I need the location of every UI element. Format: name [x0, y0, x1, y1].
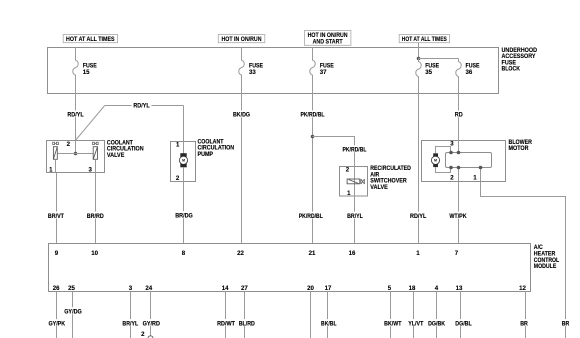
wire YL/VT from module pin 18	[407, 292, 424, 338]
blower motor name	[509, 139, 533, 152]
svg-text:RD: RD	[455, 112, 464, 119]
svg-text:RD/WT: RD/WT	[217, 320, 235, 327]
wire GY/RD from module pin 24 with connector	[142, 292, 161, 336]
svg-text:BR/YL: BR/YL	[347, 213, 363, 220]
wire PK/RD/BL from fuse 37 to module pin 21	[298, 94, 325, 244]
wire GY/PK from module pin 26	[47, 292, 66, 338]
wire GY/DG from module pin 25	[63, 292, 83, 338]
fuse 15	[73, 48, 97, 94]
fuse 37	[310, 48, 334, 94]
connector 2 on GY/RD wire	[141, 331, 153, 338]
wire BK/DG from fuse 33 to module pin 22	[232, 94, 251, 244]
svg-text:BR: BR	[562, 320, 570, 327]
svg-text:27: 27	[241, 285, 248, 292]
svg-text:DG/BL: DG/BL	[455, 320, 472, 327]
wire from blower motor pin 1 right side down	[481, 168, 571, 338]
svg-text:RD/YL: RD/YL	[133, 102, 150, 109]
svg-text:BK/WT: BK/WT	[384, 320, 402, 327]
blower motor M2	[431, 153, 439, 167]
svg-text:BR/VT: BR/VT	[48, 213, 64, 220]
svg-text:BR/YL: BR/YL	[122, 320, 138, 327]
svg-text:33: 33	[249, 69, 256, 76]
svg-text:17: 17	[325, 285, 332, 292]
module bottom pin numbers	[53, 285, 527, 292]
svg-text:GY/DG: GY/DG	[64, 308, 82, 315]
blower motor bottom link wire	[436, 167, 451, 172]
recirc valve symbol	[347, 179, 364, 184]
power label box: HOT AT ALL TIMES (fuse 15)	[63, 35, 117, 44]
module top pin numbers	[55, 250, 459, 257]
wire from HOT AT ALL TIMES box down to fuse 35/36 junction	[418, 43, 420, 59]
svg-text:25: 25	[68, 285, 75, 292]
coolant circulation pump name	[198, 139, 235, 158]
wire RD/WT from module pin 14	[216, 292, 236, 338]
wire down into pump pin 1	[183, 106, 185, 142]
svg-text:3: 3	[89, 166, 93, 173]
A/C heater control module box	[49, 244, 531, 292]
wire BK/WT from module pin 5	[383, 292, 402, 338]
svg-text:AND START: AND START	[313, 38, 343, 45]
svg-text:MODULE: MODULE	[534, 263, 557, 270]
svg-text:M: M	[182, 159, 185, 163]
wire BR/YL from module pin 3	[121, 292, 139, 338]
svg-text:HOT IN ON/RUN: HOT IN ON/RUN	[222, 36, 262, 43]
svg-text:MOTOR: MOTOR	[509, 145, 530, 152]
wire BR/VT from valve pin 1 to module pin 9	[47, 173, 65, 244]
recirculated air switchover valve name	[370, 165, 411, 191]
svg-text:RD/YL: RD/YL	[410, 213, 427, 220]
svg-text:PK/RD/BL: PK/RD/BL	[343, 147, 367, 154]
junction node on PK/RD/BL wire	[311, 135, 315, 139]
blower motor top link wire	[436, 147, 451, 154]
svg-text:GY/PK: GY/PK	[48, 320, 65, 327]
svg-text:18: 18	[409, 285, 416, 292]
underhood accessory fuse block outline	[48, 48, 499, 94]
wire RD/YL horizontal branch to coolant circulation pump	[105, 102, 184, 110]
svg-text:20: 20	[307, 285, 314, 292]
svg-text:DG/BK: DG/BK	[428, 320, 446, 327]
svg-text:22: 22	[237, 250, 244, 257]
svg-text:37: 37	[320, 69, 327, 76]
coolant circulation valve box	[47, 141, 105, 174]
wire BR/YL from recirc valve pin 1 to module pin 16	[346, 196, 364, 244]
power label box: HOT AT ALL TIMES (fuses 35/36)	[399, 35, 449, 44]
wire BR from module pin 12	[519, 292, 529, 338]
wire BR/RD from valve pin 3 to module pin 10	[85, 173, 104, 244]
svg-text:BLOCK: BLOCK	[502, 66, 521, 73]
wire PK/RD/BL branch to recirculated air switchover valve	[313, 137, 368, 167]
svg-text:WT/PK: WT/PK	[449, 213, 467, 220]
svg-text:VALVE: VALVE	[370, 184, 388, 191]
valve left solenoid symbol	[53, 147, 57, 173]
module name	[534, 244, 560, 270]
svg-text:24: 24	[145, 285, 152, 292]
wire RD/YL from fuse 15 to coolant circulation valve pin 2	[66, 94, 84, 141]
wire BR/DG from pump pin 2 to module pin 8	[174, 182, 194, 244]
fuse 36	[456, 59, 480, 94]
svg-text:13: 13	[456, 285, 463, 292]
svg-text:16: 16	[349, 250, 356, 257]
junction nodes blower	[449, 151, 453, 155]
coolant circulation valve name	[107, 139, 144, 158]
svg-text:BL/RD: BL/RD	[239, 320, 256, 327]
svg-text:PUMP: PUMP	[198, 151, 214, 158]
valve right tiny valve icon	[93, 142, 99, 144]
recirculated air switchover valve box	[340, 167, 368, 197]
junction node fuse35/36 feed	[417, 57, 421, 61]
svg-text:12: 12	[519, 285, 526, 292]
svg-text:HOT AT ALL TIMES: HOT AT ALL TIMES	[402, 36, 448, 43]
fuse 35	[416, 59, 439, 94]
wire diagonal branch from valve pin 2 up-right	[76, 106, 105, 141]
wire DG/BL from module pin 13	[454, 292, 472, 338]
valve left tiny valve icon	[53, 142, 59, 144]
wire BK/BL from module pin 17	[320, 292, 338, 338]
svg-text:PK/RD/BL: PK/RD/BL	[301, 112, 325, 119]
blower motor inner resistor block	[446, 153, 492, 168]
svg-text:15: 15	[83, 69, 90, 76]
svg-text:HOT AT ALL TIMES: HOT AT ALL TIMES	[66, 36, 115, 43]
power label box: HOT IN ON/RUN (fuse 33)	[218, 35, 264, 44]
fuse 33	[239, 48, 263, 94]
svg-text:BK/BL: BK/BL	[321, 320, 337, 327]
svg-text:14: 14	[222, 285, 229, 292]
svg-text:BR/RD: BR/RD	[87, 213, 105, 220]
blower wire into resistor top	[458, 141, 460, 153]
wire RD/YL from fuse 35 to module pin 1	[409, 94, 427, 244]
power label box: HOT IN ON/RUN AND START (fuse 37)	[304, 31, 351, 46]
valve pin2 internal wire and junction	[75, 141, 77, 154]
svg-text:35: 35	[425, 69, 432, 76]
wire from module pin 20	[310, 292, 312, 338]
recirc valve internal wire	[354, 167, 356, 197]
svg-text:1: 1	[176, 142, 180, 149]
fuse block name label	[502, 47, 538, 73]
svg-text:BR: BR	[520, 320, 528, 327]
svg-text:10: 10	[91, 250, 98, 257]
coolant circulation pump box	[171, 142, 196, 182]
svg-text:PK/RD/BL: PK/RD/BL	[299, 213, 323, 220]
svg-text:M: M	[434, 159, 437, 163]
svg-text:3: 3	[129, 285, 133, 292]
svg-text:YL/VT: YL/VT	[408, 320, 423, 327]
wire junction to fuse 36	[419, 58, 459, 60]
svg-text:21: 21	[309, 250, 316, 257]
blower motor box	[422, 140, 506, 181]
valve right solenoid symbol	[93, 147, 97, 173]
pump motor M1	[179, 142, 187, 182]
svg-text:VALVE: VALVE	[107, 152, 125, 159]
wire RD from fuse 36 to blower motor	[453, 94, 464, 141]
svg-text:26: 26	[53, 285, 60, 292]
wire DG/BK from module pin 4	[428, 292, 447, 338]
svg-text:2: 2	[450, 175, 454, 182]
wire BL/RD from module pin 27	[238, 292, 256, 338]
wire WT/PK from blower motor pin 2 to module pin 7	[449, 168, 468, 244]
svg-text:GY/RD: GY/RD	[143, 320, 161, 327]
svg-text:BK/DG: BK/DG	[233, 112, 250, 119]
svg-text:BR/DG: BR/DG	[175, 212, 193, 219]
svg-text:36: 36	[466, 69, 473, 76]
svg-text:RD/YL: RD/YL	[67, 112, 84, 119]
